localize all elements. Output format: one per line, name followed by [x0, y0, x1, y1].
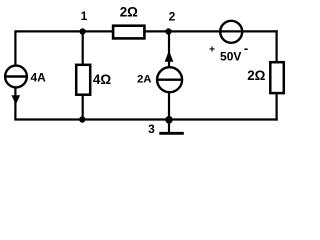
junction dot 4ohm-bottom rail — [79, 116, 85, 122]
svg-text:4Ω: 4Ω — [93, 72, 111, 87]
wire 4ohm resistor to bottom rail — [82, 95, 84, 120]
ground — [159, 120, 184, 134]
current source I1 4A — [5, 66, 27, 105]
wire node1 to 4ohm resistor — [82, 31, 84, 64]
svg-text:-: - — [244, 41, 248, 56]
svg-text:2Ω: 2Ω — [247, 68, 265, 83]
resistor R1 4ohm — [76, 65, 90, 95]
svg-text:1: 1 — [81, 9, 88, 23]
svg-text:2A: 2A — [137, 74, 152, 86]
wire left rail upper — [14, 30, 16, 66]
wire bottom rail — [14, 118, 277, 120]
current source I2 2A — [157, 50, 182, 92]
wire left rail lower — [14, 87, 16, 120]
wire right rail upper — [276, 30, 278, 62]
wire 2A source to node3 — [168, 92, 170, 120]
svg-text:4A: 4A — [31, 71, 47, 85]
svg-text:2Ω: 2Ω — [120, 5, 138, 20]
node 3 junction dot — [165, 116, 173, 124]
voltage source V1 50V — [220, 21, 242, 43]
wire node2 to 2A source — [168, 31, 170, 68]
wire right rail lower — [276, 93, 278, 121]
svg-text:2: 2 — [169, 10, 176, 24]
wire top rail — [15, 30, 277, 32]
node 2 junction dot — [165, 28, 171, 34]
node 1 junction dot — [79, 28, 85, 34]
svg-text:+: + — [209, 44, 215, 55]
resistor R3 2ohm right — [270, 62, 284, 93]
resistor R2 2ohm top — [113, 26, 144, 39]
svg-text:3: 3 — [148, 122, 155, 136]
svg-text:50V: 50V — [220, 50, 241, 64]
